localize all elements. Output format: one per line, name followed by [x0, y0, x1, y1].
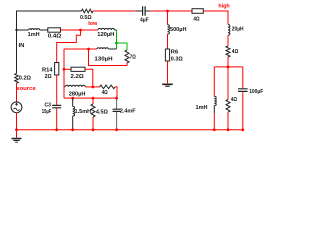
- junction bottom rail source: [15, 128, 18, 131]
- junction bottom rail 4.5ohm: [92, 128, 95, 131]
- svg-text:280µH: 280µH: [69, 91, 86, 97]
- junction shunt rail 4.5ohm: [92, 97, 95, 100]
- junction bottom rail load 1mH: [213, 128, 216, 131]
- junction 280uH row: [91, 86, 94, 89]
- junction bottom rail load 4ohm: [227, 128, 230, 131]
- svg-text:0.4Ω: 0.4Ω: [48, 34, 62, 40]
- junction top of 500uH branch: [166, 10, 169, 13]
- resistor 0.5ohm (top series): [82, 9, 94, 13]
- svg-text:R6: R6: [171, 49, 179, 55]
- wire green node vertical: [116, 30, 118, 49]
- svg-text:500µH: 500µH: [170, 27, 187, 33]
- ground (R6 branch): [162, 83, 173, 85]
- capacitor 2.4mF branch: [116, 98, 118, 109]
- wire node high (red): [203, 11, 228, 25]
- wire tap jog from row to R14: [57, 30, 81, 63]
- svg-text:120µH: 120µH: [97, 32, 114, 38]
- wire 130uH row red: [64, 48, 97, 50]
- wire 2.2ohm right leg down: [85, 69, 93, 87]
- resistor 4.5ohm branch: [92, 98, 94, 104]
- svg-text:4Ω: 4Ω: [102, 90, 108, 96]
- AC source V1: [11, 102, 22, 113]
- wire source to bottom rail: [16, 113, 18, 130]
- wire left bus of middle network: [63, 49, 65, 98]
- junction on 130uH row: [87, 48, 90, 51]
- junction load box top: [227, 66, 230, 69]
- ground (source): [12, 138, 22, 140]
- junction green node: [115, 42, 118, 45]
- junction shunt rail 1.5mH: [71, 97, 74, 100]
- wire red into load box top: [227, 57, 229, 67]
- junction at IN column: [15, 29, 17, 31]
- wire R14 to C3: [56, 75, 58, 105]
- wire middle shunt rail: [64, 97, 117, 99]
- resistor 4ohm (top right series): [192, 9, 203, 14]
- junction 2.2ohm tap: [63, 68, 66, 71]
- svg-text:4Ω: 4Ω: [193, 16, 199, 22]
- svg-text:0.5Ω: 0.5Ω: [80, 15, 92, 21]
- wire red row to 120uH: [61, 29, 98, 31]
- svg-text:4Ω: 4Ω: [232, 49, 239, 55]
- svg-text:1.5mH: 1.5mH: [75, 109, 92, 115]
- svg-text:4Ω: 4Ω: [231, 97, 237, 103]
- svg-text:low: low: [88, 21, 97, 27]
- wire/lead below 1mH load: [213, 106, 215, 114]
- inductor 120uH: [98, 28, 115, 30]
- wire R6 to ground: [167, 61, 169, 83]
- svg-text:2.2Ω: 2.2Ω: [71, 74, 84, 80]
- svg-text:100µF: 100µF: [249, 89, 263, 95]
- junction bottom rail load 100uF: [241, 128, 244, 131]
- wire left edge of load box: [213, 67, 215, 97]
- junction node on row (to R14 tap): [79, 29, 82, 32]
- resistor R14 2ohm: [55, 63, 59, 76]
- svg-text:R14: R14: [42, 67, 53, 73]
- wire bottom rail: [17, 129, 243, 131]
- svg-text:IN: IN: [19, 43, 25, 49]
- resistor 7ohm: [125, 50, 129, 63]
- wire below load 4ohm: [227, 112, 229, 130]
- junction shunt rail 2.4mF: [115, 97, 118, 100]
- inductor 1mH input: [29, 29, 40, 30]
- wire node low (red, top): [93, 10, 135, 12]
- wire top red to 4ohm resistor: [151, 10, 192, 12]
- wire load box top rail: [214, 66, 243, 68]
- wire stub to green node: [115, 29, 117, 31]
- capacitor 100uF: [238, 89, 248, 92]
- wire stub 130uH to green: [108, 48, 116, 50]
- wire center branch into load: [227, 67, 229, 100]
- inductor 1.5mH branch: [72, 98, 74, 106]
- wire node source: [16, 83, 18, 102]
- wire to 2.2ohm: [64, 68, 71, 70]
- wire red below 7ohm: [89, 49, 128, 66]
- wire green node to 7ohm: [117, 43, 128, 50]
- wire red between 20uH and 4ohm: [227, 35, 229, 46]
- svg-text:20µH: 20µH: [232, 27, 244, 33]
- wire IN column (black): [16, 30, 18, 73]
- resistor R6 0.3ohm: [165, 49, 169, 61]
- junction bottom rail C3: [55, 128, 58, 131]
- junction bottom rail 1.5mH: [71, 128, 74, 131]
- svg-text:15µF: 15µF: [42, 109, 52, 115]
- svg-text:130µH: 130µH: [94, 57, 112, 63]
- capacitor C3 15uF: [52, 105, 61, 107]
- svg-text:2.4mF: 2.4mF: [120, 109, 136, 115]
- inductor 500uH: [168, 25, 170, 34]
- svg-text:1mH: 1mH: [28, 32, 40, 38]
- resistor 4ohm middle: [100, 85, 115, 89]
- wire 1mH input row (black): [17, 29, 29, 31]
- wire right edge of load box: [242, 67, 244, 88]
- inductor 130uH: [97, 48, 108, 49]
- svg-text:1mH: 1mH: [196, 105, 208, 111]
- resistor 2.2ohm: [71, 67, 85, 71]
- wire top-left corner net IN: [17, 11, 82, 30]
- capacitor C 4uF: [135, 10, 150, 12]
- wire 4ohm middle down to rail: [115, 87, 117, 98]
- resistor 0.2ohm: [15, 73, 19, 83]
- svg-text:C3: C3: [45, 102, 52, 108]
- inductor 280uH: [64, 86, 65, 88]
- wire stub to ground left: [16, 130, 18, 138]
- svg-text:0.2Ω: 0.2Ω: [19, 76, 31, 82]
- wire between 1mH and 0.4ohm: [40, 29, 48, 31]
- svg-text:0.3Ω: 0.3Ω: [171, 56, 183, 62]
- inductor 1mH (load): [214, 97, 216, 106]
- junction bottom rail 2.4mF: [115, 128, 118, 131]
- wire C3 to bottom rail: [56, 108, 58, 130]
- svg-text:high: high: [218, 3, 230, 9]
- svg-text:source: source: [16, 86, 36, 92]
- wire 500uH branch top: [167, 11, 169, 25]
- svg-text:2Ω: 2Ω: [45, 74, 52, 80]
- resistor 4ohm (right series): [226, 46, 230, 57]
- inductor 20uH: [228, 25, 230, 36]
- wire red between 500uH and R6: [167, 34, 169, 49]
- svg-text:4µF: 4µF: [140, 18, 149, 24]
- resistor 0.4ohm: [48, 28, 61, 32]
- resistor 4ohm (load): [226, 100, 230, 113]
- svg-text:4.5Ω: 4.5Ω: [96, 110, 108, 116]
- svg-text:7Ω: 7Ω: [130, 55, 136, 61]
